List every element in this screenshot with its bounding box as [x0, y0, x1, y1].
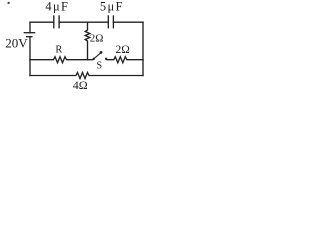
- wire left vertical upper: [29, 22, 31, 33]
- wire top-middle segment: [59, 21, 108, 23]
- wire top-left segment: [30, 21, 54, 23]
- svg-text:2Ω: 2Ω: [90, 33, 104, 45]
- battery 20V plates: [24, 33, 34, 37]
- wire bottom + resistor 4ohm zigzag: [30, 73, 143, 79]
- wire right vertical: [142, 22, 144, 75]
- svg-text:20V: 20V: [5, 36, 28, 51]
- wire middle-right + resistor 2ohm zigzag: [107, 57, 143, 63]
- svg-text:4μF: 4μF: [45, 0, 69, 13]
- wire top-right segment: [113, 21, 143, 23]
- capacitor 5uF plates: [108, 16, 113, 28]
- wire middle-left + resistor R zigzag: [30, 57, 93, 63]
- speck top-left: [8, 2, 10, 4]
- svg-text:5μF: 5μF: [100, 0, 124, 13]
- capacitor 4uF plates: [54, 16, 59, 28]
- svg-text:R: R: [55, 45, 62, 56]
- svg-text:2Ω: 2Ω: [115, 44, 129, 56]
- svg-text:S: S: [97, 61, 103, 72]
- wire left vertical lower: [29, 37, 31, 76]
- switch S: [93, 51, 108, 60]
- resistor 2ohm vertical branch: [85, 22, 90, 60]
- svg-text:4Ω: 4Ω: [73, 78, 88, 91]
